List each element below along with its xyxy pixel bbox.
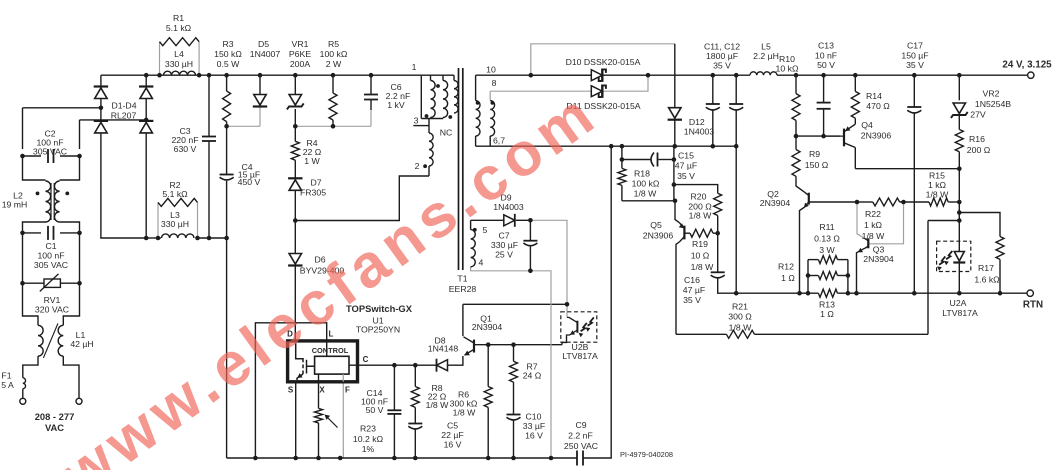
svg-text:4: 4 xyxy=(479,258,484,268)
winding T1 primary B xyxy=(443,81,448,118)
resistor R20 200 ohm xyxy=(714,193,722,215)
svg-text:C1: C1 xyxy=(45,241,56,251)
wire bridge bottom rail xyxy=(146,237,161,239)
wire pin8 row gray xyxy=(490,90,591,92)
wire R17 bottom xyxy=(999,259,1001,293)
svg-text:2.2 nF: 2.2 nF xyxy=(568,431,593,441)
wire C3 bottom stub xyxy=(208,141,210,238)
wire w2 spine top xyxy=(428,119,430,134)
diode D11 DSSK20-015A xyxy=(591,86,602,97)
svg-text:C7: C7 xyxy=(498,231,509,241)
svg-text:R17: R17 xyxy=(978,263,994,273)
svg-text:0.5 W: 0.5 W xyxy=(217,59,240,69)
wire R5 bottom stub xyxy=(332,120,334,126)
inductor L4 330 uH xyxy=(164,71,196,75)
wire R18 bottom row xyxy=(622,200,675,202)
svg-text:L4: L4 xyxy=(174,49,184,59)
capacitor C2 100 nF xyxy=(47,149,49,163)
svg-text:35 V: 35 V xyxy=(713,61,731,71)
wire R23 to rail xyxy=(318,423,320,458)
capacitor C11 1800 uF xyxy=(706,103,720,105)
wire bypass gray xyxy=(531,44,675,75)
polarity dot pin2 xyxy=(423,164,427,168)
svg-text:16 V: 16 V xyxy=(525,431,543,441)
svg-text:PI-4979-040208: PI-4979-040208 xyxy=(620,450,673,459)
wire w2 bottom xyxy=(428,166,430,176)
wire C13 top stub xyxy=(823,75,825,102)
wire C6 top stub xyxy=(370,75,372,94)
wire main return drop xyxy=(226,238,228,458)
wire frame left xyxy=(807,260,809,294)
wire Q3 emitter xyxy=(857,248,865,293)
svg-text:D10 DSSK20-015A: D10 DSSK20-015A xyxy=(566,57,641,67)
svg-text:5.1 kΩ: 5.1 kΩ xyxy=(166,23,192,33)
wire C6 bottom gray xyxy=(370,110,372,126)
svg-text:D12: D12 xyxy=(689,117,705,127)
wire RV1 row right xyxy=(60,282,79,284)
svg-text:Q3: Q3 xyxy=(873,245,885,255)
wire bridge right lower xyxy=(145,133,147,238)
wire rail L3 to C3 xyxy=(198,237,227,239)
resistor R4 22 ohm xyxy=(291,141,299,160)
svg-text:1N4007: 1N4007 xyxy=(250,49,281,59)
resistor R2 5.1 k xyxy=(158,198,198,206)
svg-text:150 Ω: 150 Ω xyxy=(805,160,829,170)
svg-text:D1-D4: D1-D4 xyxy=(111,101,136,111)
wire drain node to pin2 xyxy=(295,176,429,221)
resistor R15 1 k xyxy=(929,198,948,206)
wire R17 branch xyxy=(959,213,1000,237)
svg-text:47 µF: 47 µF xyxy=(683,285,705,295)
capacitor C17 150 uF xyxy=(907,106,921,108)
svg-text:10 nF: 10 nF xyxy=(815,51,837,61)
wire Q5 emitter riser xyxy=(675,201,680,223)
wire D8 to Q1 emitter xyxy=(448,356,463,365)
wire C15 left link xyxy=(621,160,623,169)
svg-text:R5: R5 xyxy=(328,39,339,49)
inductor L1 right winding xyxy=(58,325,63,356)
wire D10 cathode row xyxy=(602,74,648,76)
diode D5 1N4007 xyxy=(254,95,266,106)
wire R10 top stub xyxy=(795,75,797,93)
svg-text:24 V, 3.125: 24 V, 3.125 xyxy=(1002,60,1052,71)
wire R2-L3 frame left xyxy=(157,202,159,238)
terminal RTN xyxy=(1027,290,1033,296)
resistor R22 1 k xyxy=(873,198,900,206)
polarity dot L2 right xyxy=(65,192,69,196)
svg-text:19 mH: 19 mH xyxy=(2,200,28,210)
resistor R18 100 k xyxy=(618,168,626,185)
wire C1 row right xyxy=(60,232,80,234)
wire R21 row right xyxy=(755,333,929,335)
svg-text:C9: C9 xyxy=(575,420,586,430)
wire RV1 to L1 right xyxy=(63,283,79,325)
wire Q2 base row xyxy=(809,201,857,203)
wire C17 top stub xyxy=(913,75,915,107)
wire C15 row left xyxy=(622,159,651,161)
svg-text:208 - 277: 208 - 277 xyxy=(35,411,75,422)
svg-text:1N4148: 1N4148 xyxy=(428,344,459,354)
svg-text:450 V: 450 V xyxy=(238,177,261,187)
wire C3 top stub xyxy=(208,75,210,136)
svg-text:630 V: 630 V xyxy=(174,144,197,154)
wire bias bottom gray xyxy=(471,267,551,458)
svg-text:1 Ω: 1 Ω xyxy=(781,273,795,283)
svg-text:R14: R14 xyxy=(866,91,882,101)
svg-text:10.2 kΩ: 10.2 kΩ xyxy=(353,434,384,444)
svg-text:R19: R19 xyxy=(692,239,708,249)
wire D12 control column xyxy=(673,146,675,201)
transformer T1 core xyxy=(459,68,463,270)
svg-text:LTV817A: LTV817A xyxy=(942,308,978,318)
svg-text:1/8 W: 1/8 W xyxy=(634,189,657,199)
wire Q5 collector riser xyxy=(676,242,680,334)
wire R5 top stub xyxy=(332,75,334,93)
wire col C stub xyxy=(453,75,455,80)
optocoupler U2A LTV817A box xyxy=(937,241,971,271)
wire C2 top to bridge left mid xyxy=(23,107,101,109)
wire C2 left leg xyxy=(22,108,24,149)
diode D7 FR305 xyxy=(289,180,301,191)
svg-text:305 VAC: 305 VAC xyxy=(34,260,68,270)
svg-text:50 V: 50 V xyxy=(817,60,835,70)
svg-text:R20: R20 xyxy=(691,192,707,202)
wire bridge left mid xyxy=(100,99,102,122)
winding T1 primary A xyxy=(431,81,436,118)
resistor R5 100 k xyxy=(329,93,337,120)
svg-text:250 VAC: 250 VAC xyxy=(564,441,598,451)
svg-text:C11, C12: C11, C12 xyxy=(704,42,740,52)
svg-text:FR305: FR305 xyxy=(300,188,326,198)
wire C11 top stub xyxy=(712,75,714,104)
svg-text:R22: R22 xyxy=(865,209,881,219)
wire L2 right bottom to C1 xyxy=(60,222,80,233)
wire R6 top stub xyxy=(487,345,489,387)
transistor Q1 2N3904 xyxy=(473,340,475,353)
svg-text:2N3904: 2N3904 xyxy=(863,254,894,264)
svg-text:330 µH: 330 µH xyxy=(161,219,189,229)
resistor R11 0.13 ohm xyxy=(818,256,837,264)
svg-text:27V: 27V xyxy=(970,110,986,120)
wire R1-L4 frame left xyxy=(159,42,161,75)
resistor R10 10 k xyxy=(792,94,800,121)
resistor R14 470 ohm xyxy=(851,91,859,118)
wire frame right xyxy=(847,260,849,294)
svg-text:R9: R9 xyxy=(809,149,820,159)
capacitor C3 220 nF xyxy=(202,136,216,138)
wire R19 right link xyxy=(713,232,718,234)
transistor Q4 2N3906 xyxy=(843,129,845,147)
wire L1 to F1 xyxy=(23,356,38,378)
wire clamp bus VR1-C6 gray xyxy=(295,125,371,127)
wire bottom source rail xyxy=(227,457,577,459)
svg-text:1 W: 1 W xyxy=(304,156,320,166)
wire primary top xyxy=(421,74,454,76)
wire bridge left lower xyxy=(101,133,146,238)
resistor R6 300 k xyxy=(484,387,492,408)
capacitor C15 47 uF xyxy=(651,153,654,167)
light arrows U2B xyxy=(581,323,587,331)
wire R1-L4 frame right xyxy=(198,42,200,75)
svg-text:P6KE: P6KE xyxy=(289,49,311,59)
svg-text:5.1 kΩ: 5.1 kΩ xyxy=(162,189,188,199)
svg-text:100 nF: 100 nF xyxy=(37,251,64,261)
wire sec spine2 top gray xyxy=(489,91,491,100)
svg-text:22 µF: 22 µF xyxy=(441,430,463,440)
wire col B bot stub xyxy=(442,118,444,119)
wire Q1 base row xyxy=(474,344,562,346)
wire U1 X pin inner xyxy=(318,374,320,382)
wire C5 bottom xyxy=(414,430,416,459)
svg-text:CONTROL: CONTROL xyxy=(312,346,349,355)
svg-text:LTV817A: LTV817A xyxy=(562,351,598,361)
svg-text:25 V: 25 V xyxy=(495,250,513,260)
winding T1 secondary 2 xyxy=(490,101,494,136)
svg-text:47 µF: 47 µF xyxy=(675,161,697,171)
wire Q4 collector row xyxy=(855,168,959,170)
svg-text:300 Ω: 300 Ω xyxy=(728,312,752,322)
svg-text:Q5: Q5 xyxy=(650,220,662,230)
inductor L3 330 uH xyxy=(162,234,195,238)
wire node row xyxy=(796,135,840,137)
svg-text:35 V: 35 V xyxy=(677,171,695,181)
resistor R17 1.6 k xyxy=(996,237,1004,260)
wire D5 bottom stub gray xyxy=(259,106,261,126)
resistor R3 150 k xyxy=(223,91,231,122)
wire R7 to C10 xyxy=(513,382,515,414)
wire R3 bottom stub xyxy=(226,122,228,127)
transistor Q3 2N3904 xyxy=(867,238,869,248)
wire R16 bottom xyxy=(958,152,960,202)
wire C1 to RV1 right xyxy=(79,233,81,283)
winding T1 bias xyxy=(471,230,476,267)
capacitor C6 2.2 nF xyxy=(364,94,378,96)
fuse F1 5 A xyxy=(23,378,26,389)
capacitor C4 15 uF xyxy=(220,174,234,176)
svg-text:0.13 Ω: 0.13 Ω xyxy=(814,234,840,244)
wire R15 right xyxy=(948,201,959,203)
wire U1 C pin inner xyxy=(349,364,358,366)
choke L2 right winding xyxy=(54,181,59,222)
svg-text:R18: R18 xyxy=(634,169,650,179)
wire C1 row left xyxy=(23,232,42,234)
wire opto collector entry gray xyxy=(566,304,568,317)
wire X pin to R23 xyxy=(318,382,320,409)
wire R11 row r xyxy=(838,259,848,261)
wire D12 column lower xyxy=(674,119,676,146)
wire R10 bottom xyxy=(795,120,797,136)
diode D9 1N4003 xyxy=(504,215,515,226)
wire col A bot stub xyxy=(430,118,432,119)
potentiometer R23 10.2 k xyxy=(315,408,323,423)
svg-text:RTN: RTN xyxy=(1023,300,1043,311)
wire VR2 to R16 xyxy=(958,116,960,129)
svg-text:VR2: VR2 xyxy=(983,89,1000,99)
capacitor C9 2.2 nF xyxy=(576,451,578,466)
wire L1 to right terminal xyxy=(63,356,79,398)
wire D9 to C7 node xyxy=(516,219,530,221)
wire C12 bottom stub xyxy=(735,111,737,147)
wire R2-L3 frame right xyxy=(197,202,199,238)
wire bus right xyxy=(838,292,1028,294)
wire C17 column xyxy=(913,114,915,294)
diode D8 1N4148 xyxy=(437,360,448,371)
svg-text:U2A: U2A xyxy=(950,298,967,308)
wire C14 stub bottom xyxy=(393,414,395,458)
wire C1 to RV1 left xyxy=(22,233,24,283)
svg-text:C13: C13 xyxy=(818,41,834,51)
wire Q2 base row 2 xyxy=(857,201,873,203)
wire col B stub xyxy=(442,75,444,80)
wire R4 top stub xyxy=(294,126,296,141)
wire R8 to C5 xyxy=(414,407,416,423)
wire R3-C4 link xyxy=(226,126,228,174)
svg-text:D5: D5 xyxy=(258,39,269,49)
resistor R21 300 ohm xyxy=(726,330,754,338)
wire Q5 base to R19 xyxy=(684,232,690,234)
svg-text:R11: R11 xyxy=(819,222,834,232)
wire R7 top stub xyxy=(513,345,515,362)
diode D10 DSSK20-015A xyxy=(591,70,602,81)
wire output rail xyxy=(648,74,750,76)
wire primary left vert xyxy=(420,75,422,118)
wire D12 column upper xyxy=(674,44,676,108)
wire sec spine2 bottom xyxy=(489,136,491,146)
wire R12 row xyxy=(808,275,818,277)
wire R18 bottom xyxy=(621,185,623,200)
light arrows U2A xyxy=(939,256,945,264)
wire C7 bottom xyxy=(529,245,531,271)
transistor Q5 2N3906 xyxy=(683,226,685,240)
wire col A stub xyxy=(430,75,432,80)
wire D11 cathode gray xyxy=(602,75,648,91)
wire bias gray to riser xyxy=(530,220,567,304)
polarity dot primary NC xyxy=(448,115,452,119)
wire C15 row right xyxy=(659,159,674,161)
wire R9 top xyxy=(795,136,797,149)
svg-text:Q4: Q4 xyxy=(861,120,873,130)
svg-text:F1: F1 xyxy=(1,371,11,381)
wire R14 bottom xyxy=(854,118,856,124)
wire AC input top rail to bridge xyxy=(101,74,421,76)
svg-text:1N5254B: 1N5254B xyxy=(975,99,1011,109)
wire S pin xyxy=(295,382,297,458)
svg-text:2: 2 xyxy=(415,161,420,171)
wire bus xyxy=(736,292,818,294)
terminal AC left xyxy=(20,398,26,404)
svg-text:330 µF: 330 µF xyxy=(491,240,518,250)
optocoupler U2B LTV817A box xyxy=(561,312,597,342)
terminal output 24V xyxy=(1028,72,1034,78)
wire sec spine1 bottom xyxy=(475,136,477,146)
svg-text:35 V: 35 V xyxy=(683,295,701,305)
svg-text:L5: L5 xyxy=(761,42,771,52)
svg-text:100 kΩ: 100 kΩ xyxy=(320,49,348,59)
resistor R12 1 ohm xyxy=(818,272,837,280)
svg-text:NC: NC xyxy=(440,128,453,138)
wire Q1 collector row xyxy=(463,303,567,305)
svg-text:EER28: EER28 xyxy=(449,284,477,294)
svg-text:1 kΩ: 1 kΩ xyxy=(928,180,947,190)
wire LED column top xyxy=(958,221,960,252)
resistor R13 1 ohm xyxy=(818,289,837,297)
wire sec spine1 top xyxy=(475,75,477,100)
svg-text:C16: C16 xyxy=(684,275,700,285)
wire R20 to R19 node xyxy=(717,216,719,234)
wire VR1 bottom stub xyxy=(294,109,296,126)
wire F pin gray xyxy=(342,374,344,458)
resistor R7 24 ohm xyxy=(510,361,518,382)
svg-text:D7: D7 xyxy=(310,178,321,188)
svg-text:3: 3 xyxy=(414,116,419,126)
wire R3 top stub xyxy=(226,75,228,91)
diode D3 xyxy=(95,122,107,132)
wire R6 bottom stub xyxy=(487,407,489,458)
svg-text:C: C xyxy=(363,355,369,364)
diode D12 1N4003 xyxy=(669,108,681,119)
choke L2 19 mH left winding xyxy=(46,181,51,222)
wire pin3 stub xyxy=(413,125,429,127)
wire C12 top stub xyxy=(735,75,737,104)
svg-text:1 Ω: 1 Ω xyxy=(820,309,834,319)
transistor Q2 2N3904 xyxy=(808,193,810,205)
svg-text:2.2 µH: 2.2 µH xyxy=(753,51,779,61)
wire RV1 row left xyxy=(23,282,45,284)
wire U1 F pin inner gray xyxy=(342,374,344,382)
wire VR1 top stub xyxy=(294,75,296,94)
wire C2 right leg xyxy=(79,120,81,149)
svg-text:24 Ω: 24 Ω xyxy=(523,371,542,381)
svg-text:305 VAC: 305 VAC xyxy=(33,147,67,157)
svg-text:1/8 W: 1/8 W xyxy=(453,408,476,418)
wire C7 top xyxy=(529,220,531,240)
wire R20 top row xyxy=(674,185,718,194)
svg-text:T1: T1 xyxy=(457,274,467,284)
svg-text:R16: R16 xyxy=(969,134,985,144)
svg-text:16 V: 16 V xyxy=(444,440,462,450)
wire C9 right to riser xyxy=(583,146,611,458)
polarity dot bias xyxy=(473,228,477,232)
svg-text:R12: R12 xyxy=(778,262,794,272)
wire opto U2B emitter jog xyxy=(562,337,567,345)
junction dots xyxy=(144,73,149,78)
svg-text:1%: 1% xyxy=(362,444,375,454)
polarity dot sec2 xyxy=(491,101,495,105)
capacitor C5 22 uF xyxy=(408,423,422,425)
wire C11 bottom stub xyxy=(712,111,714,147)
svg-text:C10: C10 xyxy=(526,412,542,422)
svg-text:330 µH: 330 µH xyxy=(165,59,193,69)
wire reg column xyxy=(958,202,960,221)
inductor L1 42 uH left winding xyxy=(38,325,43,356)
svg-text:1/8 W: 1/8 W xyxy=(862,231,885,241)
resistor R19 10 ohm xyxy=(690,229,713,237)
wire bridge right column top xyxy=(145,75,147,87)
svg-text:470 Ω: 470 Ω xyxy=(866,101,890,111)
core L2 xyxy=(51,183,54,220)
wire left leg C2 to L2 xyxy=(23,156,46,180)
wire R14 top stub xyxy=(854,75,856,91)
wire bridge right mid xyxy=(145,99,147,122)
wire C13 bottom stub xyxy=(823,109,825,136)
svg-text:3 W: 3 W xyxy=(819,245,835,255)
svg-text:2N3904: 2N3904 xyxy=(760,198,791,208)
svg-text:2N3904: 2N3904 xyxy=(472,322,503,332)
varistor RV1 320 VAC xyxy=(44,279,60,287)
wire R18 col top xyxy=(621,146,623,159)
wire C6 bottom stub xyxy=(370,100,372,111)
wire C2 right to bridge right mid xyxy=(80,119,147,121)
